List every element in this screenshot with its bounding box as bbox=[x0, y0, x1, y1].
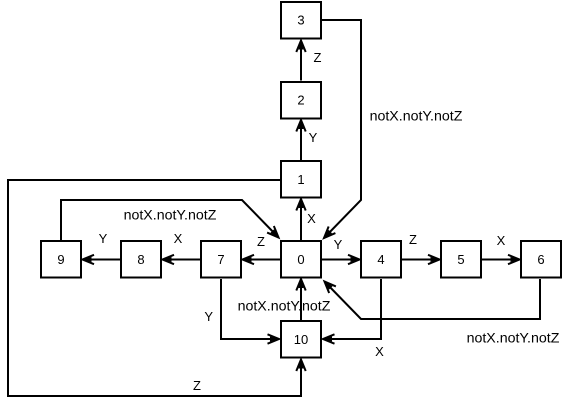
svg-text:0: 0 bbox=[297, 252, 304, 267]
arrow 4 to 5 bbox=[402, 259, 440, 261]
arrow 0 to 7 bbox=[243, 259, 281, 261]
svg-text:10: 10 bbox=[294, 332, 308, 347]
svg-text:7: 7 bbox=[217, 252, 224, 267]
svg-text:Z: Z bbox=[257, 234, 265, 249]
svg-text:X: X bbox=[497, 233, 506, 248]
state box 4 bbox=[361, 241, 401, 278]
svg-text:3: 3 bbox=[297, 13, 304, 28]
state box 9 bbox=[41, 241, 81, 278]
svg-text:1: 1 bbox=[297, 172, 304, 187]
arrow 8 to 9 bbox=[83, 259, 121, 261]
svg-text:notX.notY.notZ: notX.notY.notZ bbox=[238, 299, 331, 315]
state box 2 bbox=[281, 82, 321, 119]
svg-text:Z: Z bbox=[409, 232, 417, 247]
arrow 3 to 0 via right side bbox=[322, 20, 361, 238]
state box 10 bbox=[281, 321, 321, 358]
svg-text:8: 8 bbox=[137, 252, 144, 267]
svg-text:9: 9 bbox=[57, 252, 64, 267]
svg-text:5: 5 bbox=[457, 252, 464, 267]
svg-text:notX.notY.notZ: notX.notY.notZ bbox=[124, 208, 217, 224]
svg-text:Y: Y bbox=[334, 237, 343, 252]
svg-text:Y: Y bbox=[204, 309, 213, 324]
state box 1 bbox=[281, 161, 321, 198]
arrow 1 to 10 via far left and bottom bbox=[8, 180, 301, 396]
state box 6 bbox=[521, 241, 561, 278]
svg-text:Z: Z bbox=[193, 378, 201, 393]
arrow 7 to 8 bbox=[163, 259, 201, 261]
svg-text:6: 6 bbox=[537, 252, 544, 267]
arrow 2 to 3 bbox=[300, 41, 302, 81]
svg-text:Y: Y bbox=[309, 130, 318, 145]
state box 0 bbox=[281, 241, 321, 278]
arrow 6 to 0 via bottom bbox=[325, 279, 541, 319]
svg-text:Z: Z bbox=[314, 50, 322, 65]
svg-text:4: 4 bbox=[377, 252, 384, 267]
arrow 4 to 10 bbox=[323, 279, 381, 339]
svg-text:X: X bbox=[375, 344, 384, 359]
arrow 0 to 1 bbox=[300, 199, 302, 240]
arrow 0 to 4 bbox=[322, 259, 360, 261]
svg-text:2: 2 bbox=[297, 93, 304, 108]
state box 5 bbox=[441, 241, 481, 278]
state box 7 bbox=[201, 241, 241, 278]
arrow 1 to 2 bbox=[300, 120, 302, 160]
state box 3 bbox=[281, 2, 321, 39]
svg-text:notX.notY.notZ: notX.notY.notZ bbox=[370, 109, 463, 125]
arrow 9 to 0 via top bbox=[61, 200, 279, 240]
svg-text:notX.notY.notZ: notX.notY.notZ bbox=[467, 331, 560, 347]
arrow 5 to 6 bbox=[482, 259, 520, 261]
arrow 10 to 0 bbox=[300, 279, 302, 320]
svg-text:X: X bbox=[174, 231, 183, 246]
arrow 7 to 10 bbox=[221, 279, 279, 339]
svg-text:Y: Y bbox=[99, 231, 108, 246]
state box 8 bbox=[121, 241, 161, 278]
svg-text:X: X bbox=[307, 211, 316, 226]
